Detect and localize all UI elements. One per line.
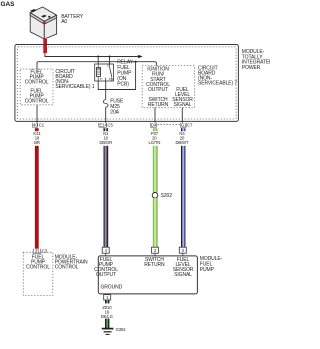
wire N1 (DB/OR) TIPM to fuel pump module [103,146,108,247]
wire: relay pin 86 up-stub [97,57,99,65]
terminal 37 C3 (PCM) [33,249,41,253]
svg-text:40: 40 [33,123,38,128]
svg-text:D4: D4 [151,123,157,128]
svg-text:BK/LG: BK/LG [101,314,113,319]
battery terminal (negative post) [30,9,37,12]
svg-text:C1: C1 [39,123,45,128]
module box inner dashed border [17,47,236,119]
circuit board 1 dashed box (fuel pump control) [20,69,53,105]
connector label (40) C1 [32,123,44,128]
tick: N1 (DB/OR) [103,128,108,131]
junction on fuel pump control wire [135,61,137,63]
switch arm [110,67,112,77]
wire: switch return exit to D4 [154,108,156,123]
svg-text:GROUND: GROUND [101,284,123,290]
wire: fuel pump control to relay coil / ignition board [37,62,156,69]
junction: relay coil 86 tap [97,55,99,57]
svg-text:LG/TN: LG/TN [148,140,160,145]
battery positive marker (red) [43,21,46,24]
module box fuel pump [98,256,197,294]
terminal 2 (fuel pump module) [152,247,159,253]
svg-text:20A: 20A [110,110,119,116]
wire N4 (DB/WT) [181,146,186,247]
relay R: RELAY-FUEL PUMP [95,64,114,81]
terminal 3 (fuel pump module) [179,247,186,253]
svg-text:SERVICEABLE) 7: SERVICEABLE) 7 [198,81,237,87]
svg-text:CONTROL: CONTROL [25,99,49,105]
wire battery B+ feed (red) [43,39,47,53]
pin 87 stub [105,78,107,81]
svg-text:DB/OR: DB/OR [99,140,112,145]
wire: pin 87 to fuse [105,81,107,100]
svg-text:RETURN: RETURN [148,102,169,108]
relay coil [96,68,100,77]
connector label (G1) C7 [180,123,193,128]
svg-text:OUTPUT: OUTPUT [148,87,168,93]
arrowhead on B+ bus [138,55,142,59]
ground G302 [102,329,114,335]
svg-text:C7: C7 [187,123,193,128]
svg-text:CONTROL: CONTROL [26,264,50,270]
connector label (E14) C5 [99,123,114,128]
wire: fuel level exit to G1/C7 [181,108,183,123]
wire: B+ bus inside TIPM [45,53,139,56]
tick: N4 (DB/WT) [181,128,186,131]
svg-text:S202: S202 [161,193,173,199]
svg-text:87A: 87A [109,78,114,81]
svg-text:OUTPUT: OUTPUT [96,272,116,278]
tick: P37 (LG) [153,128,157,131]
wire P37 (LG/TN) upper segment [153,146,158,193]
svg-text:SERVICEABLE) 1: SERVICEABLE) 1 [55,84,94,90]
svg-text:A0: A0 [61,19,67,25]
fuse M25 20A [103,100,108,108]
svg-text:PUMP: PUMP [200,267,215,273]
wire: relay pin 30 up-stub [109,57,111,65]
pin 87A stub [111,78,113,81]
splice S202 [152,193,158,199]
battery terminal (positive post) [41,15,46,18]
svg-text:C5: C5 [108,123,114,128]
wire Z910 (BK/LG) [105,319,109,328]
junction: relay pin 30 tap [108,55,110,57]
svg-text:BR: BR [34,140,40,145]
terminal 1 (ground pin) [104,295,111,300]
connector label (D4) [150,123,157,128]
svg-text:CONTROL: CONTROL [25,80,49,86]
terminal 4 (fuel pump module) [102,247,109,253]
svg-text:POWER: POWER [242,65,261,71]
module box: TOTALLY INTEGRATED POWER (outer solid) [15,45,239,122]
svg-text:G302: G302 [116,327,127,332]
battery A0 [30,7,56,39]
svg-text:E14: E14 [99,123,107,128]
coil stubs [97,64,99,68]
svg-text:PCB): PCB) [117,82,129,88]
tick: K31 (red) [35,128,39,131]
svg-text:37: 37 [35,249,40,254]
wire P37 (LG/TN) lower segment [153,198,158,247]
ignition/switch dashed box (circuit board 7) [142,66,194,108]
svg-text:RETURN: RETURN [144,262,165,268]
svg-text:DB/WT: DB/WT [176,140,190,145]
svg-text:C3: C3 [42,249,48,254]
wire: branch to relay coil 85 [98,62,135,90]
module box PCM (dashed) [23,252,53,295]
connector grouping dashed line D4..G1 [158,124,180,126]
svg-text:CONTROL: CONTROL [55,264,79,270]
svg-text:SIGNAL: SIGNAL [174,102,192,108]
switch common 30 stub [109,64,111,67]
wire K31 (BR) TIPM to PCM [35,146,39,249]
wire: fuel pump control exit to C1 [36,105,38,123]
svg-text:SIGNAL: SIGNAL [174,272,192,278]
wire: fuse to connector C5 [105,107,107,123]
battery terminal dot [48,16,50,18]
svg-text:GAS: GAS [1,1,16,8]
wire Z910 stub [105,300,109,303]
